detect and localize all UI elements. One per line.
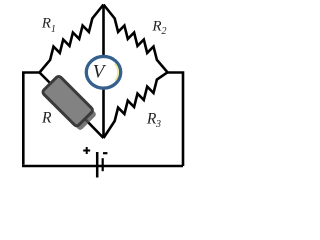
resistor R1 (sawtooth zigzag, top-left arm) — [40, 5, 104, 73]
battery: short plate (-) — [102, 158, 104, 171]
highlight arc inside voltmeter — [115, 64, 118, 81]
wire: right branch (node R to bottom-right corner) — [168, 73, 184, 167]
resistor R3 (sawtooth zigzag, bottom-right arm) — [104, 72, 168, 138]
rheostat R (gray slider block, bottom-left arm) — [42, 75, 94, 127]
wire: left branch (node L to bottom-left corner) — [23, 73, 39, 165]
battery: long plate (+) — [96, 152, 99, 178]
svg-text:R: R — [151, 19, 161, 35]
wire: node L to rheostat R — [40, 73, 53, 86]
wire: rheostat R to node B — [84, 118, 104, 138]
wire: node T to voltmeter — [102, 5, 105, 56]
svg-text:2: 2 — [162, 26, 167, 37]
svg-text:R: R — [41, 16, 51, 32]
rheostat R shadow — [45, 79, 97, 131]
svg-text:1: 1 — [51, 24, 56, 35]
resistor R2 (sawtooth zigzag, top-right arm) — [104, 5, 168, 73]
battery polarity label - — [103, 152, 107, 154]
voltmeter V (blue circle) — [86, 56, 120, 88]
svg-text:R: R — [41, 109, 52, 126]
battery polarity label + — [83, 147, 90, 154]
svg-text:3: 3 — [155, 119, 161, 130]
wire: bottom rail (battery loop) — [22, 165, 183, 168]
wire: voltmeter to node B — [102, 90, 105, 139]
